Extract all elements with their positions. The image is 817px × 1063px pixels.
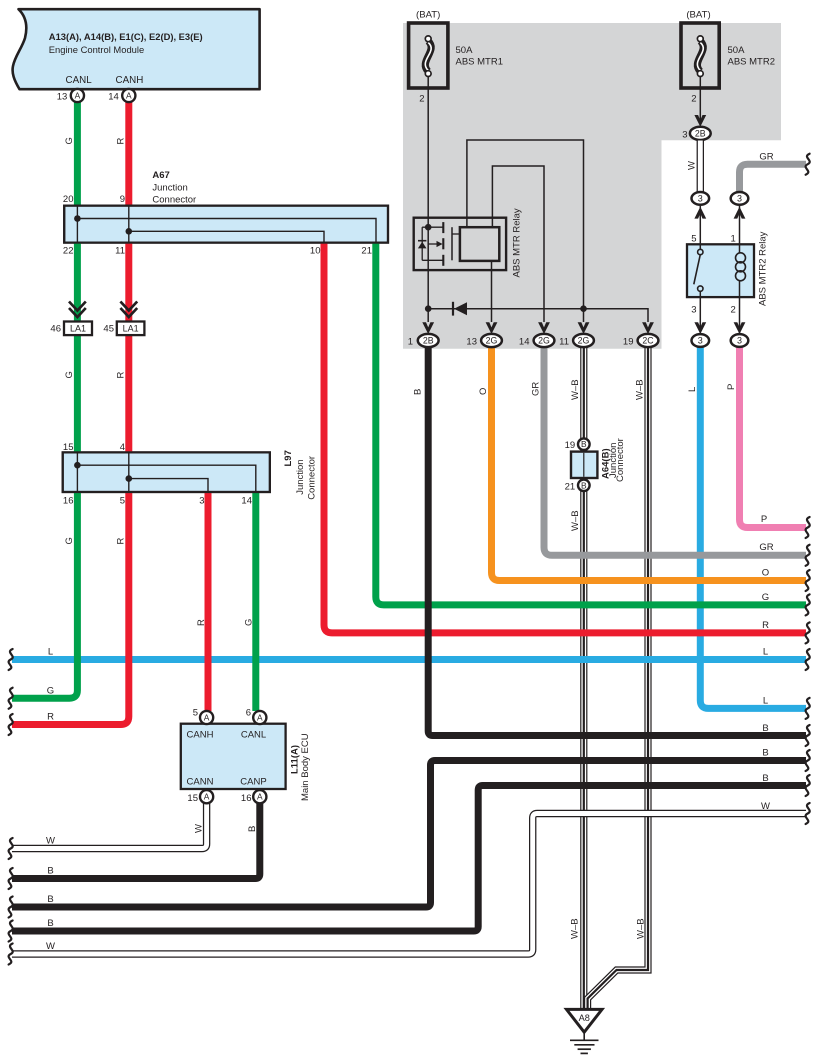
svg-text:R: R	[116, 538, 127, 545]
wire: horizontal node line with diode to 19 2C drop	[428, 309, 648, 322]
value label 50A ABS MTR2	[728, 45, 776, 68]
svg-text:W: W	[46, 836, 55, 847]
svg-text:13: 13	[466, 337, 477, 348]
svg-text:10: 10	[310, 245, 321, 256]
svg-text:A: A	[126, 91, 132, 101]
svg-text:21: 21	[565, 481, 576, 492]
svg-text:G: G	[244, 619, 255, 626]
svg-text:R: R	[762, 620, 769, 631]
wire GR: gray from 14 2G oval down then right to edge	[544, 347, 806, 555]
node 11 (2G) connector oval	[573, 334, 594, 347]
svg-text:Connector: Connector	[307, 456, 318, 500]
svg-text:2: 2	[731, 305, 736, 316]
svg-text:R: R	[196, 619, 207, 626]
arrow into left 3 oval below relay	[694, 322, 706, 334]
svg-text:L: L	[763, 647, 768, 658]
wire-break curl right edge y=604.9	[806, 594, 810, 615]
svg-text:A8: A8	[579, 1013, 590, 1023]
svg-text:W–B: W–B	[570, 918, 581, 939]
wire R: red from A67 pin 11 to LA1	[125, 243, 132, 322]
wire-break curl left edge y=724.5	[9, 714, 13, 735]
wire L: light blue bus across full width	[12, 656, 806, 663]
svg-text:P: P	[761, 514, 767, 525]
svg-text:3: 3	[691, 305, 696, 316]
svg-text:Junction: Junction	[152, 182, 187, 193]
svg-text:46: 46	[50, 324, 61, 335]
svg-text:21: 21	[361, 245, 372, 256]
wire R: red from LA1 to L97 pin 4	[125, 335, 132, 452]
svg-text:CANN: CANN	[187, 776, 214, 787]
svg-text:2: 2	[419, 94, 424, 105]
svg-text:3: 3	[682, 129, 687, 140]
A67 internal bus pin9 to pin10	[126, 206, 325, 243]
svg-text:GR: GR	[759, 152, 773, 163]
op-amp/relay U1: ABS MTR Relay outer box	[414, 218, 506, 270]
value label 50A ABS MTR1	[456, 45, 504, 68]
wire: bracket from relay (drain) up-over to 11 2G drop	[467, 140, 584, 322]
node 19 (2C) connector oval	[638, 334, 659, 347]
svg-text:20: 20	[63, 194, 74, 205]
arrow into 19 2C	[642, 322, 654, 334]
node 14 (A) pin oval of ECM	[122, 89, 135, 102]
wire B: black from 1 2B oval down then right to edge	[428, 347, 806, 736]
svg-text:W: W	[761, 801, 770, 812]
junction dot at node/11 2G drop	[580, 305, 587, 312]
arrow chevrons into LA1 right	[120, 302, 137, 318]
Main Body ECU L11(A) box	[181, 724, 286, 789]
connector LA1 left box	[64, 322, 92, 336]
svg-text:B: B	[47, 866, 53, 877]
svg-text:16: 16	[63, 495, 74, 506]
wire R: red from A67 pin 10 down then right to edge	[324, 243, 806, 633]
wire G: green from LA1 to L97 pin 15	[74, 335, 81, 452]
wire: relay pin 1 lead	[739, 206, 741, 244]
wire: relay pin 2 lead to oval 3	[739, 297, 741, 333]
L97 internal bus pin15 to pin14	[74, 452, 256, 492]
ground A8 symbol	[567, 1009, 603, 1053]
node 15 (A) pin oval of ECU	[200, 790, 213, 803]
wire P: pink from relay oval 3 down then right to edge	[740, 347, 807, 528]
svg-text:6: 6	[246, 708, 251, 719]
arrow into 14 2G	[538, 322, 550, 334]
wire W: white Z-wire from right edge to left edge	[12, 814, 806, 955]
A67 internal bus pin20 to pin21	[74, 206, 376, 243]
wire W: white from Main Body ECU CANN left to edge	[12, 803, 207, 849]
svg-text:A: A	[257, 792, 263, 802]
svg-text:3: 3	[698, 336, 703, 346]
svg-text:A13(A), A14(B), E1(C), E2(D),: A13(A), A14(B), E1(C), E2(D), E3(E)	[49, 31, 203, 42]
svg-text:(BAT): (BAT)	[416, 10, 440, 21]
relay coil body box inside ABS MTR Relay	[460, 227, 499, 261]
node 13 (A) pin oval of ECM	[71, 89, 84, 102]
svg-text:(BAT): (BAT)	[686, 10, 710, 21]
node 6 (A) pin oval of ECU	[253, 711, 266, 724]
component label L97 Junction Connector	[283, 450, 318, 500]
wire B: black Z-wire second from right edge to left edge	[12, 786, 806, 932]
wire G: green from A67 pin 22 to LA1	[74, 243, 81, 322]
arrow up into oval 3 from relay pin 5	[694, 207, 706, 219]
svg-text:CANL: CANL	[241, 729, 266, 740]
arrow into 11 2G	[578, 322, 590, 334]
wire-break curl right edge y=785.5	[806, 775, 810, 796]
svg-text:19: 19	[623, 337, 634, 348]
node 3 oval below relay pin 3	[692, 334, 710, 347]
arrow into connector 3(2B)	[694, 115, 706, 127]
transistor Q1: MOSFET inside ABS MTR Relay	[418, 222, 460, 266]
svg-text:2: 2	[691, 94, 696, 105]
svg-text:3: 3	[737, 194, 742, 204]
svg-text:G: G	[64, 537, 75, 544]
svg-text:2G: 2G	[486, 336, 498, 346]
node 16 (A) pin oval of ECU	[253, 790, 266, 803]
svg-text:L: L	[48, 647, 53, 658]
wire W: white wire from 2B oval to relay connector 3	[697, 141, 704, 194]
svg-text:13: 13	[57, 92, 68, 103]
wire: relay pin 3 lead to oval 3	[699, 297, 701, 333]
wire: fuse F2 lead down to connector 2B	[699, 76, 701, 122]
node 3 oval upper right of relay	[731, 192, 749, 205]
svg-text:CANP: CANP	[240, 776, 266, 787]
svg-text:B: B	[762, 748, 768, 759]
wire-break curl right edge y=555.3	[806, 545, 810, 566]
svg-text:4: 4	[120, 442, 125, 453]
svg-text:3: 3	[199, 495, 204, 506]
svg-text:2B: 2B	[423, 336, 434, 346]
svg-text:Main Body ECU: Main Body ECU	[300, 733, 311, 801]
svg-text:L: L	[687, 387, 698, 392]
gray highlight region behind ABS MTR relay circuit	[403, 23, 781, 349]
svg-text:CANL: CANL	[66, 75, 93, 86]
relay K1: ABS MTR2 Relay box	[687, 244, 754, 297]
svg-text:R: R	[116, 372, 127, 379]
wire-break curl right edge y=760.5	[806, 750, 810, 771]
svg-text:CANH: CANH	[116, 75, 144, 86]
wire W-B: from 19 2C oval down jogging left to ground A8	[588, 347, 648, 1008]
svg-text:B: B	[47, 918, 53, 929]
node 3 oval upper left of relay	[692, 192, 710, 205]
node B oval pin 21 of A64(B)	[578, 480, 590, 492]
svg-text:A: A	[75, 91, 81, 101]
svg-text:G: G	[47, 686, 54, 697]
svg-text:14: 14	[108, 92, 119, 103]
svg-text:45: 45	[103, 324, 114, 335]
wire-break curl right edge y=580.5	[806, 570, 810, 591]
svg-text:22: 22	[63, 245, 74, 256]
svg-text:B: B	[47, 894, 53, 905]
component label A67 Junction Connector	[152, 170, 196, 205]
wire-break curl left edge y=659.5	[9, 649, 13, 670]
wire-break curl right edge y=708.4	[806, 698, 810, 719]
fuse F2: 50A ABS MTR2	[681, 23, 719, 88]
switch contact inside ABS MTR2 relay	[694, 244, 703, 297]
component label L11(A) Main Body ECU	[290, 733, 312, 801]
wire-break curl right edge y=735.5	[806, 725, 810, 746]
svg-text:B: B	[413, 389, 424, 395]
arrow into right 3 oval below relay	[734, 322, 746, 334]
Engine Control Module box	[13, 9, 260, 89]
svg-text:ABS MTR1: ABS MTR1	[456, 57, 504, 68]
svg-text:L97: L97	[283, 450, 294, 466]
svg-text:G: G	[64, 371, 75, 378]
svg-text:50A: 50A	[456, 45, 474, 56]
svg-text:W–B: W–B	[570, 510, 581, 531]
wire R: red from L97 pin 5 then left to edge	[12, 492, 129, 725]
svg-text:19: 19	[565, 440, 576, 451]
svg-text:5: 5	[120, 495, 125, 506]
svg-text:ABS MTR2: ABS MTR2	[728, 57, 776, 68]
svg-text:Engine Control Module: Engine Control Module	[49, 44, 144, 55]
junction connector L97 box	[63, 452, 270, 492]
svg-text:W: W	[686, 161, 697, 170]
wire: bracket from relay body top to 14 2G drop	[492, 166, 544, 322]
svg-text:3: 3	[737, 336, 742, 346]
svg-text:B: B	[581, 439, 587, 449]
wire R: red CANH from ECM pin 14 to A67 pin 9	[125, 101, 132, 206]
wire-break curl left edge y=931	[9, 921, 13, 942]
wire-break curl left edge y=878.5	[9, 868, 13, 889]
A67 box border overdraw	[64, 206, 388, 243]
svg-text:16: 16	[241, 793, 252, 804]
junction dot at node/ABS MTR1 lead	[425, 305, 432, 312]
wire R: red from L97 pin 3 to Main Body ECU CANH	[205, 492, 212, 711]
L97 box border overdraw	[63, 452, 270, 492]
wire-break curl right edge y=813.5	[806, 803, 810, 824]
svg-text:G: G	[762, 592, 769, 603]
svg-text:GR: GR	[531, 382, 542, 396]
wire G: green from L97 pin 16 then left to edge	[12, 492, 77, 698]
svg-text:Connector: Connector	[152, 194, 196, 205]
svg-text:15: 15	[187, 793, 198, 804]
svg-text:W–B: W–B	[570, 379, 581, 400]
node 14 (2G) connector oval	[534, 334, 555, 347]
wire G: green from A67 pin 21 down then right to edge	[376, 243, 806, 605]
svg-text:G: G	[64, 137, 75, 144]
wire GR: gray wire from right edge to relay connector 3	[740, 164, 807, 193]
wire-break curl right edge y=659.5	[806, 649, 810, 670]
svg-text:50A: 50A	[728, 45, 746, 56]
wire-break curl left edge y=848.5	[9, 838, 13, 859]
svg-text:Connector: Connector	[615, 438, 626, 482]
svg-text:9: 9	[120, 194, 125, 205]
node 5 (A) pin oval of ECU	[200, 711, 213, 724]
wire: relay pin 5 lead	[699, 206, 701, 244]
arrow into 1 2B	[422, 322, 434, 334]
relay coil inside ABS MTR2 relay	[736, 244, 746, 297]
svg-text:W: W	[194, 824, 205, 833]
wire-break curl right edge y=632.9	[806, 622, 810, 643]
svg-text:B: B	[762, 773, 768, 784]
svg-text:R: R	[116, 138, 127, 145]
wire B: black from Main Body ECU CANP left to edge	[12, 803, 260, 879]
wire-break curl right edge y=527.5	[806, 517, 810, 538]
svg-text:A: A	[204, 713, 210, 723]
svg-text:15: 15	[63, 442, 74, 453]
component label A64(B) Junction Connector	[601, 438, 627, 482]
svg-text:B: B	[247, 826, 258, 832]
node 13 (2G) connector oval	[481, 334, 502, 347]
svg-text:1: 1	[731, 234, 736, 245]
svg-text:2C: 2C	[642, 336, 654, 346]
arrow chevrons into LA1 left	[69, 302, 86, 318]
svg-text:2B: 2B	[695, 129, 706, 139]
wire-break curl left edge y=698.2	[9, 688, 13, 709]
wire L: light blue from relay oval 3 down then right to edge	[700, 347, 806, 708]
junction connector A67 box	[64, 206, 388, 243]
svg-text:ABS MTR Relay: ABS MTR Relay	[512, 208, 523, 277]
svg-text:2G: 2G	[578, 336, 590, 346]
svg-text:P: P	[726, 384, 737, 390]
svg-text:L11(A): L11(A)	[290, 745, 301, 774]
svg-text:11: 11	[115, 245, 125, 256]
svg-text:W–B: W–B	[635, 379, 646, 400]
svg-text:2G: 2G	[538, 336, 550, 346]
svg-text:W–B: W–B	[636, 918, 647, 939]
junction connector A64(B) box	[571, 452, 597, 478]
svg-text:LA1: LA1	[70, 324, 86, 334]
connector LA1 right box	[117, 322, 145, 336]
svg-text:14: 14	[241, 495, 252, 506]
svg-text:ABS MTR2 Relay: ABS MTR2 Relay	[757, 231, 768, 306]
svg-text:5: 5	[691, 234, 696, 245]
wire G: green from L97 pin 14 to Main Body ECU CANL	[252, 492, 259, 711]
fuse F1: 50A ABS MTR1	[409, 23, 448, 88]
svg-text:O: O	[762, 568, 769, 579]
node 3 (2B) connector oval	[690, 127, 711, 140]
svg-text:B: B	[762, 723, 768, 734]
wire B: black Z-wire upper right to lower left edge	[12, 761, 806, 908]
node 1 (2B) connector oval	[418, 334, 439, 347]
svg-text:14: 14	[519, 337, 530, 348]
svg-text:A: A	[204, 792, 210, 802]
svg-text:W: W	[46, 941, 55, 952]
wire-break curl right edge y=164.2	[806, 154, 810, 175]
svg-text:Junction: Junction	[295, 459, 306, 494]
svg-text:O: O	[478, 388, 489, 395]
svg-text:R: R	[47, 712, 54, 723]
svg-text:1: 1	[408, 337, 413, 348]
svg-text:11: 11	[559, 337, 569, 348]
wire-break curl left edge y=954	[9, 944, 13, 965]
svg-text:A: A	[257, 713, 263, 723]
svg-text:3: 3	[698, 194, 703, 204]
arrow up into oval 3 from relay pin 1	[734, 207, 746, 219]
svg-text:GR: GR	[759, 542, 773, 553]
svg-text:LA1: LA1	[123, 324, 139, 334]
svg-text:B: B	[581, 480, 587, 490]
wire: relay body bottom to 13 2G drop	[491, 261, 493, 322]
node 3 oval below relay pin 2	[731, 334, 749, 347]
wire: fuse ABS MTR1 pin 2 lead down through ABS MTR relay to node	[427, 76, 429, 322]
svg-text:CANH: CANH	[187, 729, 214, 740]
node B oval pin 19 of A64(B)	[578, 438, 590, 450]
wire W-B: from 11 2G oval down through A64(B) to ground A8	[580, 347, 587, 1008]
svg-text:A67: A67	[152, 170, 169, 181]
svg-text:L: L	[763, 696, 768, 707]
arrow into 13 2G	[486, 322, 498, 334]
L97 internal bus pin4 to pin3	[126, 452, 209, 492]
svg-text:5: 5	[193, 708, 198, 719]
wire O: orange from 13 2G oval down then right to edge	[492, 347, 807, 581]
diode D on node line	[453, 302, 467, 316]
wire-break curl left edge y=907	[9, 897, 13, 918]
wire G: green CANL from ECM pin 13 to A67 pin 20	[74, 101, 81, 206]
